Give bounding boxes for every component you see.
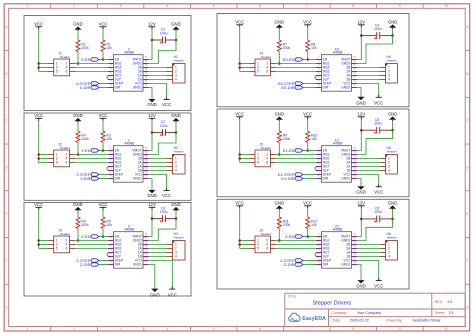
svg-text:Company:: Company: [331, 311, 347, 315]
wire MS2 [75, 244, 108, 246]
wire GND stem [392, 121, 394, 130]
wire R to MS1 net [77, 143, 79, 155]
op-amp-driver IC E0 A4988 [316, 47, 357, 91]
wire GND2 return [149, 219, 177, 241]
connector J3 2x3 header [48, 228, 75, 253]
junction [360, 129, 363, 132]
wire STEP [99, 83, 108, 85]
block 5 outline box [24, 203, 191, 297]
pin 5 RST [108, 166, 114, 168]
junction [278, 239, 281, 242]
resistor R5 10k [101, 217, 112, 229]
pin 5 RST [316, 252, 322, 254]
svg-text:12V: 12V [148, 113, 156, 118]
pin 15 GND2 [143, 240, 149, 242]
svg-text:GND: GND [275, 112, 285, 117]
wire 12V rail [151, 210, 153, 219]
power flag VCC-5b [98, 202, 107, 210]
wire GND to R [77, 212, 79, 218]
net flag E1-STEP [278, 172, 303, 177]
net flag Z-DIR [80, 262, 99, 267]
wire VCC rail [239, 27, 241, 71]
wire VMOT to 12V [149, 219, 153, 237]
power flag VCC-1a [34, 22, 43, 30]
wire GND down [357, 179, 361, 187]
connector J1 2x3 header [48, 51, 75, 76]
wire MS1 [276, 154, 316, 156]
junction [238, 62, 241, 65]
svg-text:5: 5 [56, 70, 58, 74]
wire to J pin5 [39, 71, 48, 73]
resistor R6 100k [76, 217, 89, 229]
wire VCC down [357, 261, 379, 280]
wire STEP [303, 83, 316, 85]
svg-text:2: 2 [73, 327, 75, 331]
svg-text:8: 8 [352, 327, 354, 331]
pin 4 MS3 [316, 248, 322, 250]
wire 2B [357, 158, 380, 160]
wire MS2 [75, 67, 108, 69]
svg-text:X-DIR: X-DIR [80, 85, 91, 90]
pin 6 SLP [316, 256, 322, 258]
svg-text:10: 10 [445, 4, 449, 8]
svg-text:VCC: VCC [303, 112, 312, 117]
svg-text:A4988: A4988 [124, 228, 134, 232]
pin 2 MS1 [316, 63, 322, 65]
wire MS3 [75, 162, 108, 164]
wire VCC to R [102, 121, 104, 131]
svg-text:5: 5 [213, 4, 215, 8]
wire to J pin1 [39, 154, 48, 156]
wire EN [303, 150, 316, 152]
power flag VCC-1c VCC [162, 97, 171, 107]
wire RST-SLP tie [315, 167, 318, 171]
sheet cell [435, 311, 454, 315]
svg-text:Header: Header [174, 236, 184, 240]
svg-text:100u: 100u [374, 122, 382, 126]
junction [151, 39, 154, 42]
pin 13 2A [143, 248, 149, 250]
wire MS3 [276, 162, 316, 164]
svg-text:GND: GND [147, 193, 157, 198]
svg-text:10: 10 [445, 327, 449, 331]
connector H4 1x4 header [380, 55, 398, 83]
wire R to EN net [102, 52, 104, 60]
power flag 12V-2 12V [357, 20, 365, 28]
svg-text:DIR: DIR [323, 86, 329, 90]
svg-text:E1-DIR: E1-DIR [281, 176, 294, 181]
pin 15 GND2 [352, 154, 358, 156]
svg-text:X-EN: X-EN [81, 57, 91, 62]
date row [333, 319, 441, 323]
pin 15 GND2 [143, 154, 149, 156]
svg-text:Sheet:: Sheet: [435, 311, 445, 315]
junction [102, 235, 105, 238]
pin 6 SLP [108, 256, 114, 258]
power flag GND-4c GND [356, 186, 366, 194]
pin 10 VCC [143, 260, 149, 262]
svg-text:VCC: VCC [34, 202, 43, 207]
power flag VCC-2c VCC [374, 95, 383, 106]
wire GND to R [278, 29, 280, 40]
svg-text:12V: 12V [357, 201, 365, 206]
resistor R4 100k [76, 131, 89, 143]
pin 2 MS1 [316, 240, 322, 242]
pin 3 MS2 [316, 244, 322, 246]
power flag GND-4b GND [388, 112, 398, 122]
wire 2A [149, 71, 167, 73]
net flag Y-EN [81, 148, 99, 153]
junction [238, 157, 241, 160]
power flag GND-5b GND [171, 202, 181, 212]
pin 13 2A [352, 248, 358, 250]
svg-text:GND: GND [275, 201, 285, 206]
wire R to MS1 net [77, 229, 79, 241]
wire 1A [357, 75, 380, 77]
svg-text:GND: GND [356, 284, 366, 289]
svg-text:Drawn By:: Drawn By: [386, 319, 402, 323]
svg-text:Header: Header [174, 150, 184, 154]
pin 15 GND2 [352, 240, 358, 242]
svg-text:GND: GND [73, 202, 83, 207]
wire VMOT to 12V [149, 133, 153, 151]
power flag VCC-2a [235, 20, 244, 28]
power flag GND-2b GND [388, 20, 398, 30]
wire to J pin3 [39, 158, 48, 160]
connector H3 1x4 header [167, 232, 186, 260]
svg-text:E0-EN: E0-EN [283, 57, 295, 62]
svg-text:E1-EN: E1-EN [283, 148, 295, 153]
pin 14 2B [352, 67, 358, 69]
svg-text:6: 6 [266, 161, 268, 165]
wire VCC rail [239, 208, 241, 248]
pin 10 VCC [143, 174, 149, 176]
power flag VCC-6a [235, 201, 244, 209]
svg-text:6: 6 [66, 247, 68, 251]
pin 6 SLP [108, 79, 114, 81]
pin 11 1B [143, 79, 149, 81]
svg-text:Z-DIR: Z-DIR [80, 262, 91, 267]
wire EN [99, 150, 108, 152]
power flag VCC-2b [303, 20, 312, 28]
capacitor C4 100u [374, 23, 382, 39]
net flag X-DIR [80, 85, 99, 90]
net flag E1-DIR [281, 176, 303, 181]
junction [175, 39, 178, 42]
svg-text:GND: GND [356, 101, 366, 106]
svg-text:F: F [466, 259, 468, 263]
wire GND stem [392, 210, 394, 219]
net flag X-STEP [76, 81, 99, 86]
wire EN [99, 236, 108, 238]
junction [391, 34, 394, 37]
pin 12 1A [352, 252, 358, 254]
svg-text:5: 5 [56, 161, 58, 165]
svg-text:4: 4 [175, 169, 177, 173]
net flag E0-DIR [281, 85, 303, 90]
wire GND to R [77, 31, 79, 40]
wire MS1 [75, 154, 108, 156]
pin 3 MS2 [316, 67, 322, 69]
svg-text:VCC: VCC [162, 193, 171, 198]
wire GND stem [175, 31, 177, 40]
power flag 12V-1 12V [148, 22, 156, 30]
svg-text:6: 6 [266, 247, 268, 251]
svg-text:Header: Header [261, 146, 271, 150]
pin 4 MS3 [316, 71, 322, 73]
svg-text:F: F [5, 259, 7, 263]
cap lead left [152, 132, 163, 134]
wire to J pin1 [240, 240, 250, 242]
wire EN [99, 59, 108, 61]
wire R to EN net [307, 229, 309, 237]
junction [37, 153, 40, 156]
wire R to MS1 net [77, 52, 79, 64]
wire 1B [149, 79, 167, 81]
block 1 outline box [24, 16, 191, 111]
svg-text:100k: 100k [81, 46, 89, 50]
power flag VCC-4b [303, 112, 312, 120]
junction [77, 62, 80, 65]
resistor R7 100k [277, 40, 290, 52]
svg-text:9: 9 [399, 4, 401, 8]
net flag Z-EN [285, 234, 303, 239]
junction [37, 66, 40, 69]
wire 2A [149, 248, 167, 250]
pin 9 GND1 [143, 178, 149, 180]
connector H1 1x4 header [167, 55, 186, 83]
svg-text:100k: 100k [283, 137, 291, 141]
wire GND2 return [357, 36, 393, 64]
pin 12 1A [352, 75, 358, 77]
op-amp-driver IC X A4988 [108, 47, 149, 91]
pin 14 2B [352, 158, 358, 160]
wire DIR [99, 178, 108, 180]
pin 5 RST [316, 166, 322, 168]
wire GND down [357, 265, 361, 281]
wire MS1 [75, 240, 108, 242]
net flag E0-STEP [278, 81, 303, 86]
wire MS3 [75, 71, 108, 73]
wire EN [303, 236, 316, 238]
svg-text:1.0: 1.0 [447, 300, 452, 304]
wire VCC rail [38, 29, 40, 71]
wire 12V rail [151, 121, 153, 133]
power flag GND-1c GND [147, 99, 157, 107]
wire R to EN net [102, 143, 104, 151]
wire RST-SLP tie [107, 76, 110, 80]
svg-text:GND: GND [388, 201, 398, 206]
svg-text:VCC: VCC [98, 22, 107, 27]
pin 16 VMOT [352, 59, 358, 61]
power flag GND-4a GND [275, 112, 285, 122]
wire to J pin3 [240, 244, 250, 246]
wire VCC down [149, 175, 167, 190]
wire VCC down [149, 261, 173, 288]
svg-text:REV: REV [435, 300, 443, 304]
pin 11 1B [352, 170, 358, 172]
pin 9 GND1 [352, 87, 358, 89]
net flag Y-DIR [80, 176, 99, 181]
wire GND down [149, 265, 155, 289]
cap lead left [361, 35, 376, 37]
pin 3 MS2 [108, 244, 114, 246]
svg-text:Header: Header [174, 59, 184, 63]
wire MS1 [276, 240, 316, 242]
resistor R1 10k [101, 40, 112, 52]
wire R to MS1 net [278, 143, 280, 155]
rev cell [435, 300, 452, 304]
wire GND stem [392, 29, 394, 36]
svg-text:6: 6 [259, 4, 261, 8]
svg-text:100k: 100k [81, 223, 89, 227]
svg-text:1: 1 [27, 4, 29, 8]
svg-text:12V: 12V [357, 112, 365, 117]
power flag GND-6a GND [275, 201, 285, 211]
svg-text:9: 9 [399, 327, 401, 331]
pin 8 DIR [108, 87, 114, 89]
pin 1 EN [316, 150, 322, 152]
svg-text:TITLE:: TITLE: [287, 294, 297, 298]
pin 8 DIR [316, 87, 322, 89]
pin 6 SLP [316, 170, 322, 172]
svg-text:6: 6 [259, 327, 261, 331]
junction [37, 239, 40, 242]
svg-text:7: 7 [306, 327, 308, 331]
svg-text:100k: 100k [81, 137, 89, 141]
svg-text:VCC: VCC [374, 189, 383, 194]
pin 1 EN [108, 59, 114, 61]
connector J4 2x3 header [249, 51, 276, 76]
svg-text:100u: 100u [160, 31, 168, 35]
pin 11 1B [143, 170, 149, 172]
pin 1 EN [108, 150, 114, 152]
resistor R12 10k [306, 217, 318, 229]
svg-text:10k: 10k [106, 223, 112, 227]
svg-text:5: 5 [56, 247, 58, 251]
svg-text:DIR: DIR [115, 86, 121, 90]
wire 1B [357, 256, 380, 258]
svg-text:Date:: Date: [333, 319, 341, 323]
junction [151, 131, 154, 134]
title block [285, 293, 465, 326]
net flag Z-STEP [280, 258, 303, 263]
wire STEP [303, 260, 316, 262]
block 4 outline box [217, 109, 409, 197]
wire 2B [149, 158, 167, 160]
power flag VCC-1b [98, 22, 107, 30]
pin 7 STEP [108, 260, 114, 262]
wire GND2 return [357, 219, 393, 241]
wire MS2 [276, 244, 316, 246]
wire RST-SLP tie [107, 253, 110, 257]
cap lead right [380, 35, 393, 37]
svg-text:100k: 100k [283, 46, 291, 50]
connector J5 2x3 header [249, 142, 276, 167]
cap lead right [166, 218, 177, 220]
junction [238, 243, 241, 246]
power flag VCC-5c VCC [168, 287, 177, 298]
pin 13 2A [352, 71, 358, 73]
wire VCC to R [102, 29, 104, 40]
junction [238, 66, 241, 69]
power flag GND-6b GND [388, 201, 398, 211]
power flag GND-1b GND [171, 22, 181, 32]
svg-text:4: 4 [175, 255, 177, 259]
cap lead left [152, 218, 163, 220]
pin 7 STEP [316, 174, 322, 176]
pin 2 MS1 [108, 240, 114, 242]
wire VCC rail [239, 119, 241, 162]
wire STEP [303, 174, 316, 176]
wire 1A [357, 166, 380, 168]
wire VMOT to 12V [357, 36, 361, 60]
svg-text:VCC: VCC [34, 113, 43, 118]
svg-text:Y-EN: Y-EN [81, 148, 90, 153]
pin 6 SLP [316, 79, 322, 81]
power flag VCC-5a [34, 202, 43, 210]
pin 14 2B [352, 244, 358, 246]
svg-text:GND1: GND1 [341, 86, 350, 90]
svg-text:10k: 10k [106, 137, 112, 141]
svg-text:GND1: GND1 [133, 263, 142, 267]
svg-text:2020-02-22: 2020-02-22 [350, 319, 369, 323]
wire VCC down [149, 84, 167, 99]
wire GND down [149, 179, 153, 191]
wire GND down [357, 88, 361, 97]
cap lead left [361, 129, 376, 131]
net flag Z-DIR [284, 262, 303, 267]
wire DIR [99, 87, 108, 89]
svg-text:DIR: DIR [115, 177, 121, 181]
pin 3 MS2 [316, 158, 322, 160]
pin 5 RST [316, 75, 322, 77]
svg-text:VCC: VCC [98, 202, 107, 207]
pin 14 2B [143, 158, 149, 160]
pin 13 2A [143, 162, 149, 164]
power flag 12V-6 12V [357, 201, 365, 209]
capacitor C1 100u [160, 28, 168, 44]
wire GND to R [278, 121, 280, 131]
pin 7 STEP [108, 174, 114, 176]
wire MS3 [276, 248, 316, 250]
junction [238, 153, 241, 156]
pin 12 1A [143, 75, 149, 77]
pin 16 VMOT [143, 236, 149, 238]
svg-text:12V: 12V [148, 22, 156, 27]
wire 2B [149, 67, 167, 69]
connector H2 1x4 header [167, 146, 186, 174]
pin 5 RST [108, 75, 114, 77]
svg-text:VCC: VCC [374, 284, 383, 289]
pin 16 VMOT [143, 59, 149, 61]
wire RST-SLP tie [315, 76, 318, 80]
svg-text:Header: Header [60, 232, 70, 236]
svg-text:8: 8 [352, 4, 354, 8]
junction [391, 218, 394, 221]
wire GND stem [175, 123, 177, 133]
cap lead left [152, 39, 163, 41]
svg-text:GND: GND [73, 22, 83, 27]
junction [37, 243, 40, 246]
wire MS2 [276, 158, 316, 160]
svg-text:Your Company: Your Company [357, 311, 381, 315]
pin 3 MS2 [108, 67, 114, 69]
capacitor C3 100u [160, 206, 168, 222]
net flag Z-EN [81, 234, 99, 239]
svg-text:GND: GND [356, 189, 366, 194]
svg-text:GND1: GND1 [341, 263, 350, 267]
